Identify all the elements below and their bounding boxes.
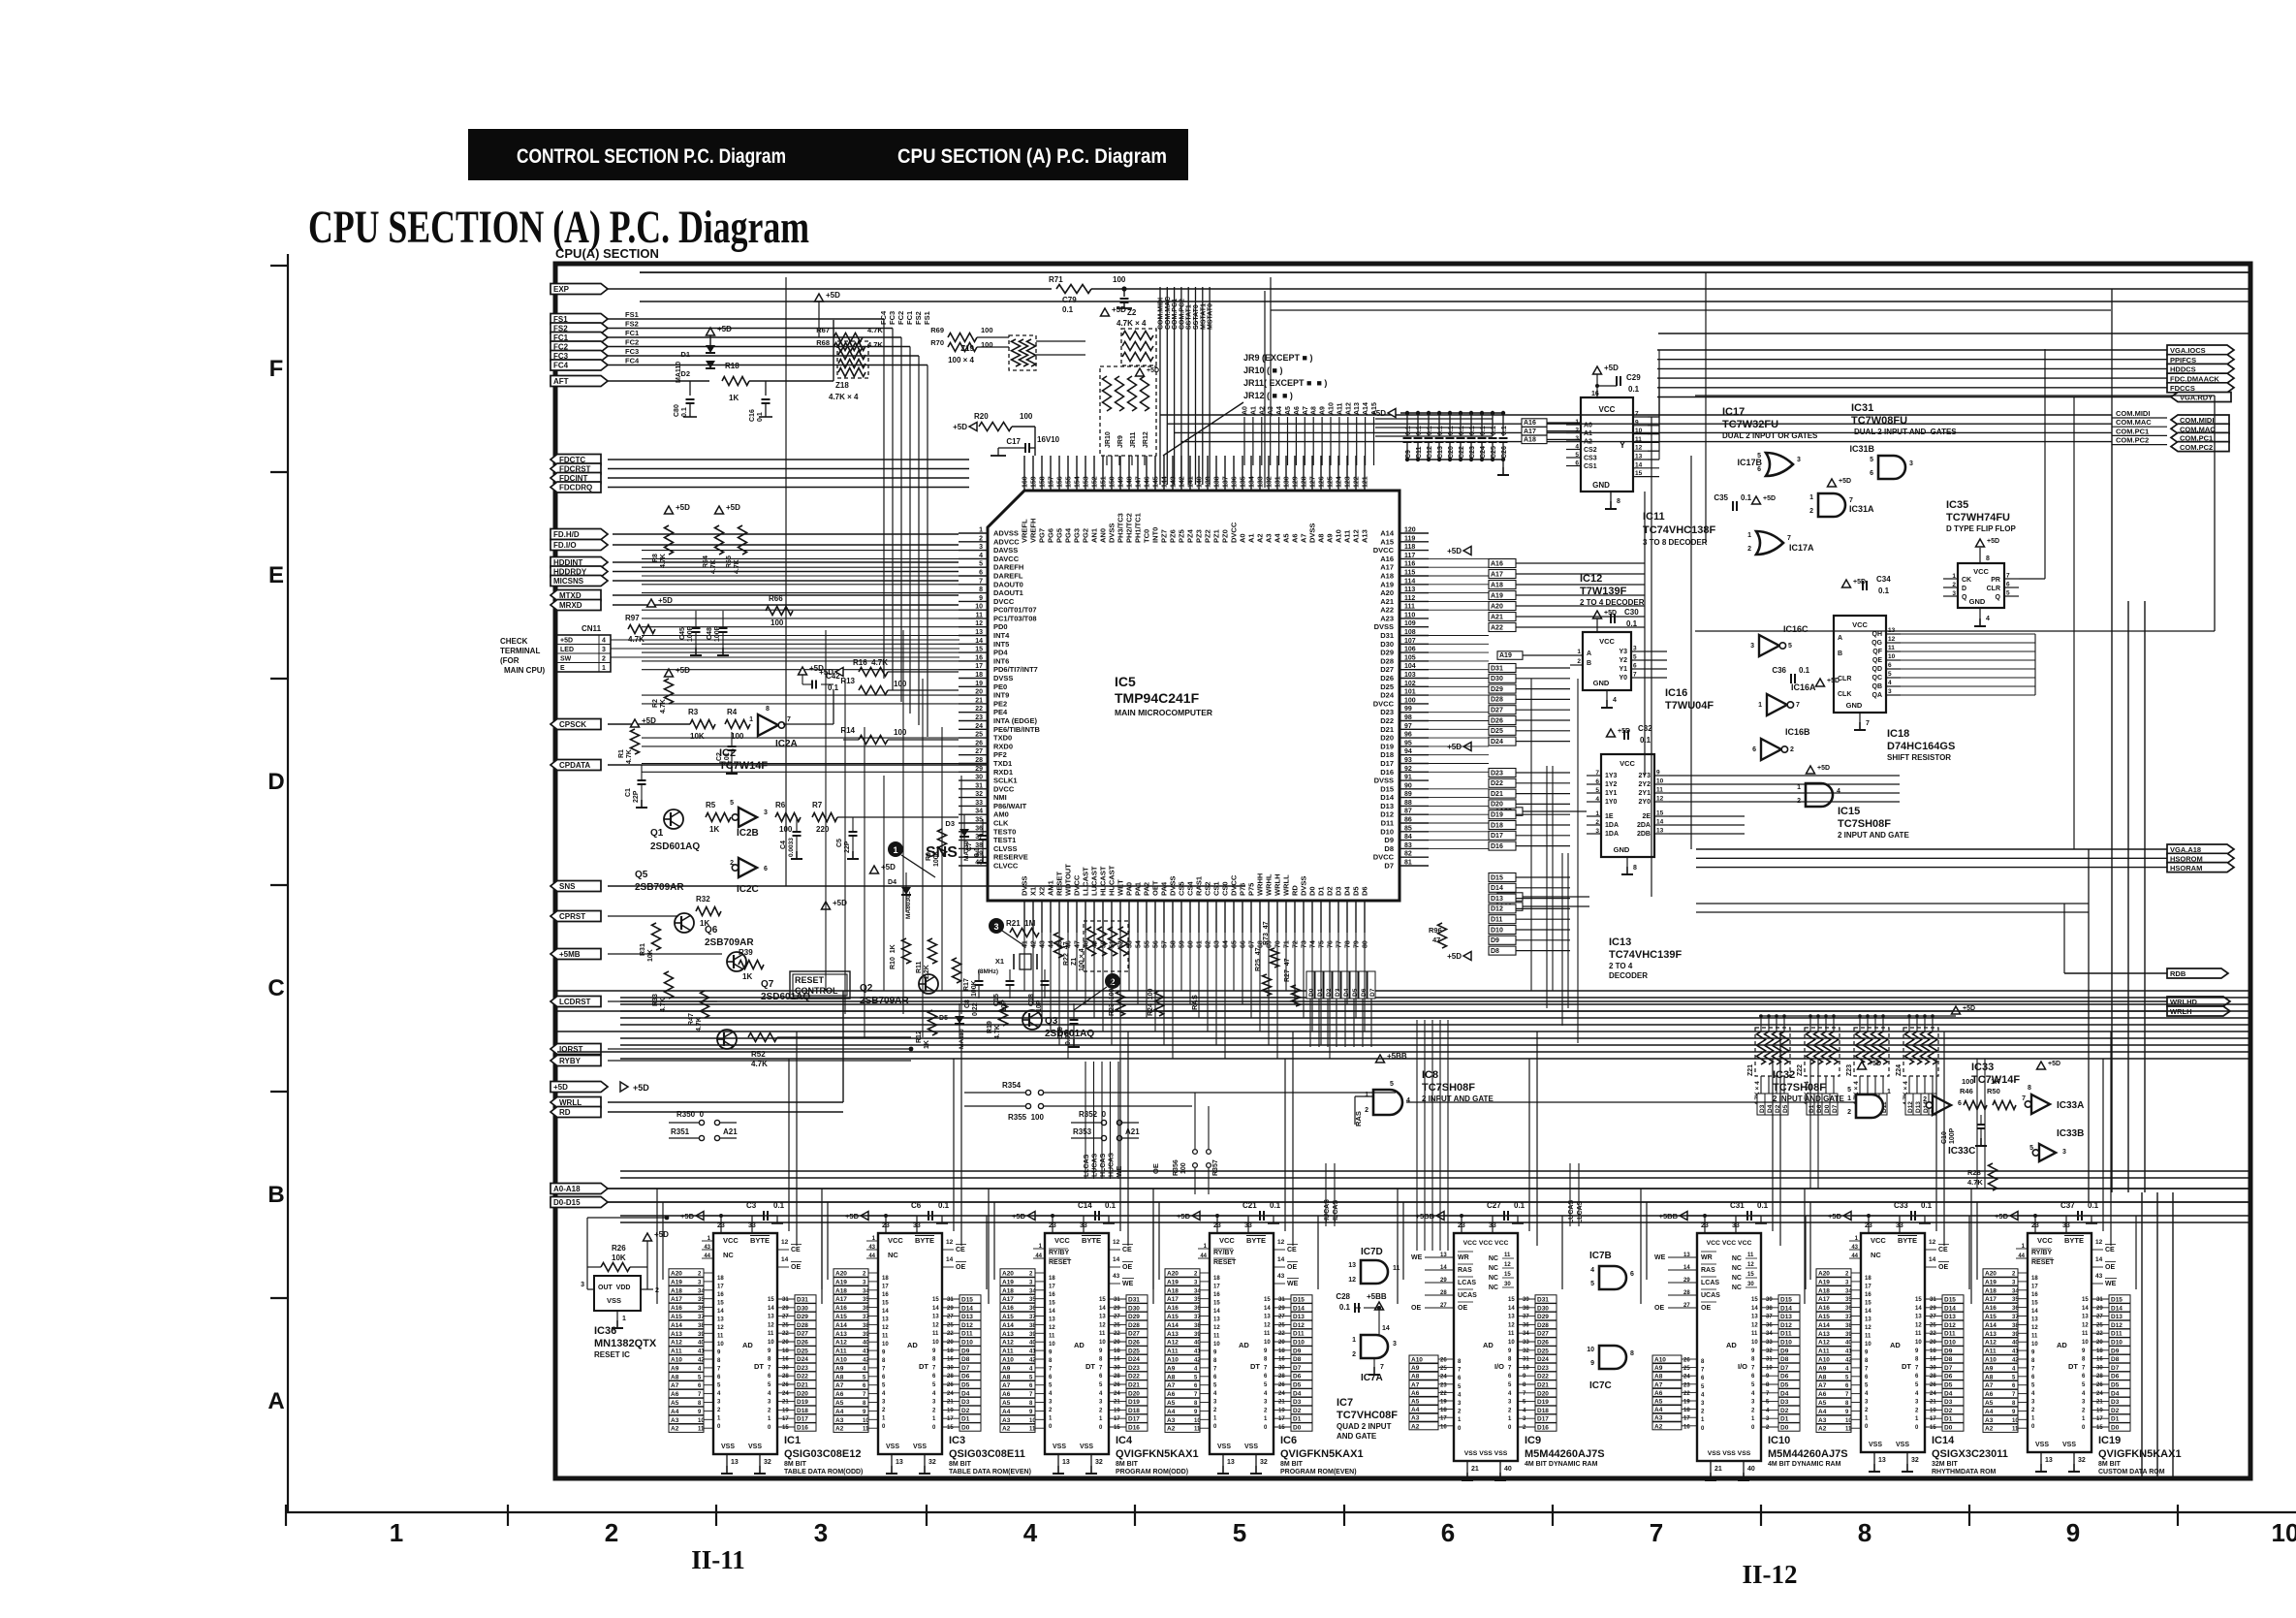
svg-text:98: 98 [1404, 714, 1412, 721]
svg-text:QSIGX3C23011: QSIGX3C23011 [1932, 1448, 2008, 1460]
svg-text:124: 124 [1337, 476, 1343, 488]
svg-text:4: 4 [882, 1391, 886, 1397]
svg-text:24: 24 [947, 1391, 954, 1397]
svg-text:11: 11 [1264, 1331, 1271, 1337]
svg-text:15: 15 [1656, 810, 1664, 817]
svg-text:14: 14 [1113, 1256, 1120, 1263]
svg-text:A8: A8 [835, 1374, 844, 1380]
svg-text:2: 2 [1213, 1408, 1217, 1413]
svg-text:7: 7 [1213, 1367, 1217, 1373]
svg-text:TMP94C241F: TMP94C241F [1115, 690, 1200, 706]
svg-text:+5D: +5D [1853, 579, 1866, 586]
svg-text:D3: D3 [1335, 886, 1343, 896]
svg-text:VSS: VSS [1244, 1444, 1258, 1450]
svg-text:A13: A13 [1361, 529, 1369, 543]
svg-text:17: 17 [1114, 1416, 1120, 1422]
svg-text:D13: D13 [1293, 1314, 1305, 1320]
svg-text:14: 14 [768, 1306, 774, 1312]
svg-text:152: 152 [1092, 476, 1099, 488]
svg-text:R28: R28 [1967, 1168, 1981, 1177]
svg-text:9: 9 [1508, 1348, 1512, 1354]
svg-text:4.7K: 4.7K [710, 559, 717, 574]
svg-text:A16: A16 [1380, 555, 1394, 563]
svg-text:D4: D4 [961, 1390, 970, 1397]
svg-text:87: 87 [1404, 809, 1412, 815]
svg-text:12: 12 [1635, 445, 1643, 452]
svg-text:PZ7: PZ7 [1160, 529, 1169, 543]
svg-text:0: 0 [932, 1425, 936, 1431]
svg-text:27: 27 [1683, 1303, 1690, 1309]
svg-text:0.1: 0.1 [1459, 426, 1465, 435]
svg-text:13: 13 [882, 1317, 889, 1323]
svg-text:8M BIT: 8M BIT [1280, 1461, 1304, 1468]
svg-text:113: 113 [1404, 587, 1415, 593]
svg-text:A3: A3 [1268, 406, 1274, 415]
svg-text:7: 7 [882, 1367, 886, 1373]
svg-text:9: 9 [1099, 1348, 1103, 1354]
svg-text:3: 3 [979, 544, 983, 551]
svg-text:17: 17 [1865, 1285, 1871, 1290]
svg-text:D1: D1 [680, 350, 690, 359]
svg-text:13: 13 [1099, 1315, 1106, 1320]
svg-text:R5: R5 [706, 801, 716, 809]
svg-text:92: 92 [1404, 766, 1412, 773]
svg-text:35: 35 [2012, 1297, 2019, 1303]
svg-text:BYTE: BYTE [915, 1236, 934, 1245]
svg-text:C11: C11 [1416, 446, 1423, 459]
svg-text:A3: A3 [1411, 1415, 1420, 1422]
svg-text:A12: A12 [1002, 1340, 1014, 1347]
svg-text:4: 4 [1865, 1391, 1869, 1397]
svg-text:10: 10 [975, 604, 983, 611]
svg-text:R50: R50 [1987, 1087, 2000, 1095]
svg-text:D15: D15 [1293, 1297, 1305, 1304]
svg-text:D26: D26 [1380, 674, 1394, 682]
svg-text:15: 15 [975, 647, 983, 653]
svg-text:11: 11 [717, 1334, 724, 1340]
svg-text:6: 6 [768, 1374, 771, 1380]
svg-text:5: 5 [1701, 1384, 1705, 1390]
svg-text:31: 31 [947, 1297, 954, 1303]
svg-text:D17: D17 [1128, 1416, 1140, 1423]
svg-text:A16: A16 [671, 1305, 682, 1312]
svg-text:0: 0 [1458, 1426, 1462, 1432]
svg-text:DVCC: DVCC [1230, 874, 1239, 896]
svg-text:D7: D7 [1369, 988, 1376, 997]
svg-text:7: 7 [717, 1367, 721, 1373]
svg-text:PC0/T01/T07: PC0/T01/T07 [993, 606, 1037, 615]
svg-text:VSS: VSS [2062, 1442, 2076, 1448]
svg-text:A17: A17 [1985, 1296, 1997, 1303]
svg-text:33: 33 [1244, 1222, 1252, 1229]
svg-text:D21: D21 [797, 1382, 808, 1389]
svg-text:FC4: FC4 [553, 362, 569, 370]
svg-text:QF: QF [1872, 649, 1882, 655]
svg-text:+5D: +5D [1763, 495, 1776, 502]
svg-text:59: 59 [1179, 940, 1186, 948]
svg-text:PC1/T03/T08: PC1/T03/T08 [993, 614, 1037, 622]
svg-text:D4: D4 [888, 879, 896, 886]
svg-text:D30: D30 [797, 1305, 808, 1312]
svg-text:DT: DT [754, 1362, 764, 1371]
svg-text:27: 27 [947, 1315, 954, 1320]
svg-text:A15: A15 [671, 1314, 682, 1320]
svg-text:38: 38 [1845, 1323, 1852, 1329]
svg-text:1Y0: 1Y0 [1605, 799, 1618, 806]
svg-text:IC11: IC11 [1643, 511, 1665, 523]
svg-text:D12: D12 [2111, 1322, 2123, 1329]
svg-text:VSS: VSS [748, 1444, 762, 1450]
svg-text:2: 2 [2082, 1408, 2086, 1413]
svg-text:D2: D2 [1326, 886, 1335, 896]
svg-text:VCC: VCC [888, 1236, 903, 1245]
svg-text:22: 22 [1278, 1331, 1285, 1337]
svg-text:R46: R46 [1960, 1087, 1973, 1095]
svg-text:A11: A11 [1167, 1348, 1179, 1355]
svg-text:A19: A19 [1491, 592, 1503, 599]
svg-text:TXD0: TXD0 [993, 734, 1012, 743]
svg-text:D23: D23 [1380, 708, 1394, 716]
svg-text:5: 5 [1590, 1281, 1594, 1287]
svg-text:14: 14 [882, 1309, 889, 1315]
svg-text:D14: D14 [1293, 1305, 1305, 1312]
svg-text:D5: D5 [1944, 1382, 1953, 1389]
svg-text:VSS: VSS [1869, 1442, 1882, 1448]
svg-text:Q: Q [1996, 594, 2001, 601]
svg-text:2: 2 [1523, 1425, 1526, 1431]
svg-text:RAS: RAS [1701, 1267, 1715, 1274]
svg-text:135: 135 [1241, 476, 1247, 488]
svg-text:17: 17 [975, 663, 983, 670]
svg-text:1E: 1E [1605, 813, 1614, 820]
svg-text:R350 0: R350 0 [676, 1110, 705, 1119]
svg-text:1: 1 [1809, 494, 1813, 501]
svg-text:33: 33 [1080, 1222, 1087, 1229]
svg-text:25: 25 [1930, 1322, 1936, 1328]
svg-text:A17: A17 [671, 1296, 682, 1303]
svg-text:D15: D15 [1491, 874, 1503, 881]
svg-text:33: 33 [913, 1222, 921, 1229]
svg-text:8: 8 [2028, 1085, 2031, 1092]
svg-text:91: 91 [1404, 775, 1412, 781]
svg-text:3: 3 [1099, 1400, 1103, 1406]
svg-text:14: 14 [1264, 1306, 1271, 1312]
svg-text:37: 37 [1523, 1315, 1529, 1320]
svg-text:13: 13 [2082, 1315, 2089, 1320]
svg-text:18: 18 [2096, 1348, 2103, 1354]
svg-text:DVSS: DVSS [1300, 876, 1308, 896]
svg-text:4.7K: 4.7K [660, 699, 667, 714]
svg-text:71: 71 [1284, 940, 1291, 948]
svg-text:D10: D10 [2111, 1340, 2123, 1347]
svg-text:23: 23 [1458, 1222, 1465, 1229]
svg-text:CLVCC: CLVCC [993, 862, 1019, 871]
svg-text:1DA: 1DA [1605, 822, 1619, 829]
svg-text:WE: WE [1411, 1254, 1423, 1261]
svg-text:A9: A9 [1320, 406, 1327, 415]
svg-text:42: 42 [1029, 1358, 1036, 1364]
svg-text:SCLK1: SCLK1 [993, 777, 1018, 785]
svg-text:D12: D12 [1944, 1322, 1956, 1329]
svg-text:P76: P76 [1239, 883, 1247, 896]
svg-text:A9: A9 [671, 1365, 679, 1372]
svg-text:29: 29 [1930, 1306, 1936, 1312]
svg-text:25: 25 [1114, 1322, 1120, 1328]
svg-text:28: 28 [1683, 1290, 1690, 1296]
svg-text:IC33B: IC33B [2057, 1128, 2084, 1139]
svg-text:D14: D14 [2111, 1305, 2123, 1312]
svg-text:5: 5 [1390, 1081, 1394, 1088]
svg-text:61: 61 [1197, 940, 1204, 948]
svg-text:LCAS: LCAS [1458, 1280, 1476, 1286]
svg-text:MSTAT0: MSTAT0 [1208, 303, 1214, 330]
svg-text:D7: D7 [1293, 1365, 1302, 1372]
svg-text:A20: A20 [1167, 1271, 1179, 1278]
svg-text:38: 38 [1194, 1323, 1201, 1329]
svg-text:A3: A3 [671, 1417, 679, 1424]
svg-text:3: 3 [993, 922, 998, 932]
svg-text:R353: R353 [1073, 1127, 1092, 1136]
svg-text:136: 136 [1232, 476, 1239, 488]
svg-text:15: 15 [932, 1297, 939, 1303]
svg-text:R357: R357 [1212, 1159, 1219, 1176]
svg-text:24: 24 [1440, 1375, 1447, 1380]
svg-text:D14: D14 [1780, 1305, 1792, 1312]
svg-text:R6: R6 [775, 801, 786, 809]
svg-text:65: 65 [1232, 940, 1239, 948]
svg-text:12: 12 [1264, 1322, 1271, 1328]
svg-text:D21: D21 [1380, 725, 1394, 734]
svg-text:1: 1 [1751, 1416, 1755, 1422]
svg-text:1: 1 [1701, 1417, 1705, 1423]
svg-text:JR9 (EXCEPT ■ ): JR9 (EXCEPT ■ ) [1243, 353, 1312, 363]
svg-text:I/O: I/O [1494, 1362, 1504, 1371]
svg-text:A10: A10 [1818, 1357, 1830, 1364]
svg-text:43: 43 [1113, 1273, 1120, 1280]
svg-text:23: 23 [1701, 1222, 1709, 1229]
svg-text:14: 14 [1656, 819, 1664, 826]
svg-text:9: 9 [1635, 419, 1639, 426]
svg-text:28: 28 [1440, 1290, 1447, 1296]
svg-text:8: 8 [932, 1357, 936, 1363]
svg-text:A3: A3 [1818, 1417, 1827, 1424]
svg-text:13: 13 [1348, 1262, 1356, 1269]
svg-text:A10: A10 [1335, 529, 1343, 543]
svg-text:88: 88 [1404, 800, 1412, 807]
svg-text:C13: C13 [1437, 446, 1444, 459]
svg-text:32: 32 [1766, 1348, 1773, 1354]
svg-text:ADVCC: ADVCC [993, 537, 1020, 546]
svg-text:FC1: FC1 [905, 311, 914, 325]
svg-text:A17: A17 [835, 1296, 847, 1303]
svg-text:C23: C23 [1469, 446, 1476, 459]
svg-text:12: 12 [1213, 1325, 1220, 1331]
svg-text:10: 10 [1049, 1342, 1055, 1348]
svg-text:9: 9 [1865, 1350, 1869, 1356]
svg-text:A14: A14 [1985, 1322, 1997, 1329]
svg-text:17: 17 [882, 1285, 889, 1290]
svg-text:16V10: 16V10 [1037, 435, 1060, 444]
svg-text:23: 23 [882, 1222, 890, 1229]
svg-text:13: 13 [2031, 1317, 2038, 1323]
svg-text:8: 8 [1865, 1358, 1869, 1364]
svg-text:D16: D16 [1537, 1425, 1549, 1432]
svg-text:12: 12 [1915, 1322, 1922, 1328]
svg-text:D1: D1 [1780, 1416, 1789, 1423]
svg-text:8: 8 [1915, 1357, 1919, 1363]
svg-text:R26: R26 [612, 1244, 626, 1253]
svg-text:0.1: 0.1 [1628, 385, 1640, 394]
svg-text:36: 36 [863, 1306, 869, 1312]
svg-text:93: 93 [1404, 757, 1412, 764]
svg-text:5: 5 [2006, 590, 2010, 597]
svg-text:Z19: Z19 [960, 344, 974, 353]
svg-text:CLK: CLK [993, 819, 1009, 828]
svg-text:0.1: 0.1 [1427, 426, 1433, 435]
svg-text:34: 34 [975, 809, 983, 815]
svg-text:14: 14 [1683, 1265, 1690, 1271]
svg-text:VCC: VCC [1599, 637, 1615, 646]
svg-text:D21: D21 [1491, 791, 1503, 798]
svg-text:11: 11 [976, 612, 984, 619]
svg-text:C80: C80 [674, 404, 680, 417]
svg-text:9: 9 [882, 1350, 886, 1356]
svg-text:1: 1 [1595, 810, 1599, 817]
svg-text:D8: D8 [1944, 1356, 1953, 1363]
svg-text:R69: R69 [930, 326, 944, 334]
svg-text:158: 158 [1040, 476, 1047, 488]
svg-text:A0: A0 [1239, 533, 1247, 543]
svg-text:0: 0 [1865, 1424, 1869, 1430]
svg-text:DUAL 2 INPUT AND GATES: DUAL 2 INPUT AND GATES [1854, 428, 1957, 436]
svg-text:D7: D7 [2111, 1365, 2120, 1372]
svg-text:16: 16 [947, 1357, 954, 1363]
svg-text:1: 1 [1797, 784, 1801, 791]
svg-text:9: 9 [1213, 1350, 1217, 1356]
svg-text:3: 3 [1049, 1400, 1053, 1406]
svg-text:A21: A21 [1125, 1127, 1140, 1136]
svg-text:36: 36 [1523, 1322, 1529, 1328]
svg-text:14: 14 [1277, 1256, 1285, 1263]
svg-text:10: 10 [2272, 1518, 2296, 1547]
svg-text:10: 10 [1099, 1340, 1106, 1346]
svg-text:D11: D11 [1944, 1331, 1956, 1338]
svg-text:1: 1 [749, 716, 753, 723]
svg-text:IC33A: IC33A [2057, 1100, 2084, 1111]
svg-text:15: 15 [1504, 1272, 1511, 1278]
svg-text:4.7K: 4.7K [867, 326, 883, 334]
svg-text:32: 32 [1095, 1459, 1103, 1466]
svg-text:SHIFT RESISTOR: SHIFT RESISTOR [1887, 753, 1951, 762]
svg-text:74: 74 [1310, 940, 1317, 948]
svg-text:13: 13 [1635, 454, 1643, 460]
svg-text:PG5: PG5 [1055, 528, 1064, 543]
svg-text:159: 159 [1031, 476, 1038, 488]
svg-text:DVCC: DVCC [1373, 699, 1395, 708]
svg-text:D10: D10 [961, 1340, 973, 1347]
svg-text:DAOUT1: DAOUT1 [993, 588, 1023, 597]
svg-text:5: 5 [1847, 1087, 1851, 1094]
svg-text:DVCC: DVCC [993, 784, 1015, 793]
svg-text:28: 28 [1114, 1374, 1120, 1380]
svg-text:29: 29 [947, 1306, 954, 1312]
svg-text:COM.PC1: COM.PC1 [1172, 299, 1179, 330]
svg-text:4: 4 [1023, 1518, 1038, 1547]
svg-text:D3: D3 [2111, 1399, 2120, 1406]
svg-text:0.01: 0.01 [724, 752, 731, 766]
svg-text:A4: A4 [1002, 1409, 1011, 1415]
svg-text:43: 43 [1277, 1273, 1285, 1280]
svg-text:R65: R65 [726, 555, 733, 568]
svg-text:A14: A14 [1363, 402, 1369, 415]
svg-text:A12: A12 [1345, 402, 1352, 415]
svg-text:62: 62 [1206, 940, 1212, 948]
svg-text:CE: CE [2105, 1247, 2115, 1253]
svg-text:D13: D13 [2111, 1314, 2123, 1320]
svg-text:A12: A12 [1352, 529, 1361, 543]
svg-text:29: 29 [975, 766, 983, 773]
svg-text:IC33C: IC33C [1948, 1146, 1975, 1157]
svg-text:CS5: CS5 [1178, 881, 1186, 896]
svg-text:1: 1 [1747, 532, 1751, 539]
svg-text:13: 13 [1751, 1315, 1758, 1320]
svg-text:NMI: NMI [993, 793, 1007, 802]
svg-text:VCC: VCC [1054, 1236, 1070, 1245]
svg-text:TC7VHC08F: TC7VHC08F [1337, 1410, 1398, 1421]
svg-text:111: 111 [1404, 604, 1415, 611]
svg-text:123: 123 [1345, 476, 1352, 488]
svg-text:41: 41 [1845, 1349, 1852, 1355]
svg-text:18: 18 [1930, 1348, 1936, 1354]
svg-text:39: 39 [1766, 1297, 1773, 1303]
svg-text:VSS: VSS [1896, 1442, 1909, 1448]
svg-text:LUCAS: LUCAS [1568, 1200, 1575, 1223]
svg-text:PROGRAM ROM(ODD): PROGRAM ROM(ODD) [1116, 1469, 1188, 1475]
svg-text:5: 5 [1788, 643, 1792, 650]
svg-text:2.2K: 2.2K [924, 965, 930, 979]
svg-text:7: 7 [1796, 702, 1800, 709]
svg-text:D1: D1 [961, 1416, 970, 1423]
svg-text:RESET: RESET [1055, 872, 1064, 896]
svg-text:100: 100 [1404, 697, 1416, 704]
svg-text:D15: D15 [1944, 1297, 1956, 1304]
svg-text:38: 38 [863, 1323, 869, 1329]
svg-text:D14: D14 [1380, 793, 1395, 802]
svg-text:0.1: 0.1 [1339, 1303, 1351, 1312]
svg-text:0: 0 [1049, 1424, 1053, 1430]
svg-text:25: 25 [1440, 1366, 1447, 1372]
svg-text:7: 7 [932, 1365, 936, 1371]
svg-text:AM1: AM1 [1047, 880, 1055, 896]
svg-text:A6: A6 [1411, 1390, 1420, 1397]
svg-text:MA8030L: MA8030L [905, 891, 912, 919]
svg-text:1: 1 [1887, 1089, 1891, 1095]
svg-text:VSS: VSS [1080, 1444, 1093, 1450]
svg-text:43: 43 [1851, 1245, 1858, 1251]
svg-text:11: 11 [2031, 1334, 2038, 1340]
svg-text:A11: A11 [835, 1348, 847, 1355]
svg-text:IC12: IC12 [1580, 573, 1602, 585]
svg-text:D23: D23 [1128, 1365, 1140, 1372]
svg-text:9: 9 [2082, 1348, 2086, 1354]
svg-text:10K: 10K [612, 1253, 626, 1262]
svg-text:FS1: FS1 [923, 311, 931, 325]
svg-text:FC2: FC2 [896, 311, 905, 325]
svg-text:ADVSS: ADVSS [993, 529, 1019, 538]
svg-text:22: 22 [782, 1331, 789, 1337]
svg-text:133: 133 [1258, 476, 1265, 488]
svg-text:DAREFL: DAREFL [993, 572, 1023, 581]
